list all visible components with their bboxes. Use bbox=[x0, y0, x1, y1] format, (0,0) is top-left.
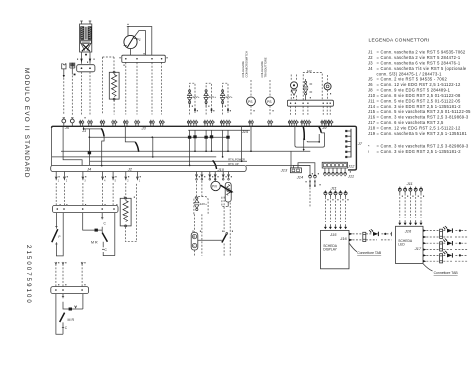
J9 wire frame bbox=[295, 126, 325, 147]
strip C connector bbox=[53, 205, 119, 212]
mains connector cup bbox=[62, 63, 66, 69]
svg-text:J15: J15 bbox=[241, 129, 249, 134]
bus B connector body bbox=[51, 165, 247, 171]
svg-text:LED: LED bbox=[398, 243, 405, 247]
igniter top leads bbox=[80, 21, 91, 24]
display board entry chevrons bbox=[324, 224, 327, 229]
wire dashed to strip C x=56.2 bbox=[55, 183, 57, 205]
pressure switch PS1 bbox=[250, 80, 252, 97]
wires dashed strip F to bus bbox=[290, 106, 292, 115]
svg-text:Connettore TAB: Connettore TAB bbox=[434, 271, 459, 275]
display LED chain bbox=[349, 233, 353, 242]
socket B C component bbox=[191, 232, 198, 250]
J9 switch blade 2 bbox=[319, 127, 321, 133]
svg-text:= Conn. 9 vie EDG RST 5 28448: = Conn. 9 vie EDG RST 5 284489-1 bbox=[377, 88, 451, 93]
led row 1 bbox=[423, 229, 426, 238]
pressure switch PS2 bbox=[269, 80, 271, 97]
svg-text:12V+: 12V+ bbox=[192, 95, 200, 99]
svg-text:= Conn. vaschetta 5 vie RST 2: = Conn. vaschetta 5 vie RST 2,5 1-135518… bbox=[377, 131, 468, 136]
svg-text:= Conn. 2 vie RST 5 94535 - 7: = Conn. 2 vie RST 5 94535 - 7062 bbox=[377, 77, 448, 82]
J9 switch blade 1 bbox=[302, 127, 305, 140]
connector pin pair at x=295.4 bbox=[293, 120, 298, 127]
wire dashed to strip D x=55.9 bbox=[55, 264, 57, 287]
P/V sensor circle bbox=[214, 174, 216, 182]
svg-text:J17: J17 bbox=[414, 246, 422, 251]
pin number specks bbox=[80, 122, 81, 123]
connector pin pair at x=161.6 bbox=[159, 120, 164, 127]
J9 drop to rail bbox=[303, 141, 305, 150]
svg-text:J11: J11 bbox=[347, 174, 354, 179]
svg-text:J15: J15 bbox=[329, 232, 337, 237]
J10 stub x=196.5 bbox=[196, 172, 198, 178]
svg-text:J13: J13 bbox=[280, 168, 288, 173]
MR1 lower bbox=[103, 213, 115, 256]
svg-text:J2: J2 bbox=[368, 55, 374, 60]
svg-text:J8: J8 bbox=[368, 88, 374, 93]
svg-text:J19: J19 bbox=[368, 131, 377, 136]
connettore TAB note (display) bbox=[349, 243, 357, 252]
wire dashed fork to J5 bbox=[71, 76, 73, 115]
switch blade mid bbox=[135, 142, 138, 151]
svg-text:J11: J11 bbox=[406, 181, 413, 186]
svg-text:conn. 5/3) 284475-1 / 284473-1: conn. 5/3) 284475-1 / 284473-1 bbox=[377, 71, 443, 76]
connector pin pair at x=189.6 bbox=[187, 120, 192, 127]
svg-text:= Conn. 12 vie EDG RST 2,5 1-: = Conn. 12 vie EDG RST 2,5 1-51122-12 bbox=[377, 82, 461, 87]
dashed drops to led board bbox=[399, 194, 401, 218]
svg-text:= Conn. 5 vie vaschetta RST 2: = Conn. 5 vie vaschetta RST 2,5 01-51122… bbox=[377, 109, 472, 114]
dashed drop to socket bbox=[194, 214, 202, 255]
connector J12 bbox=[322, 162, 347, 168]
J11 led pin row bbox=[398, 187, 401, 194]
svg-text:PS: PS bbox=[267, 100, 272, 104]
led row 3 bbox=[423, 254, 426, 262]
igniter bottom leads with arrows bbox=[82, 52, 91, 64]
J13 feed wires bbox=[293, 163, 315, 174]
scheda led box bbox=[396, 226, 424, 263]
resistor zigzag bbox=[112, 75, 117, 91]
pump terminal ticks bbox=[127, 24, 129, 26]
svg-text:= Conn. 3 vie EDG RST 2,5 1-1: = Conn. 3 vie EDG RST 2,5 1-1355181-2 bbox=[377, 104, 462, 109]
bus B stub x=102.6 bbox=[102, 172, 104, 181]
svg-text:J12: J12 bbox=[347, 163, 355, 168]
wire dashed resistor to bus bbox=[113, 100, 115, 114]
connector pin pair at x=206.1 bbox=[204, 120, 209, 127]
connector pin pair at x=330.2 bbox=[328, 120, 333, 127]
svg-text:J16: J16 bbox=[368, 115, 377, 120]
wire dashed cup to J5 bbox=[63, 78, 65, 115]
bus B stub x=113.1 bbox=[112, 172, 114, 181]
igniter core lines bbox=[85, 27, 87, 40]
led board entry chevrons bbox=[398, 220, 401, 225]
svg-text:= Conn. vaschetta 2 vie RST 5: = Conn. vaschetta 2 vie RST 5 284472-1 bbox=[377, 55, 461, 60]
wire dashed to strip C x=64.4 bbox=[63, 183, 65, 205]
long rail y151 bbox=[61, 150, 310, 152]
svg-text:= Conn. 5 vie EDG RST 2,5 01-: = Conn. 5 vie EDG RST 2,5 01-51122-05 bbox=[377, 98, 461, 103]
svg-text:12V+: 12V+ bbox=[200, 202, 208, 206]
igniter connector box J1 bbox=[77, 65, 95, 72]
J10 stub x=201.9 bbox=[201, 172, 203, 178]
svg-text:MODULO EVO II STANDARD: MODULO EVO II STANDARD bbox=[23, 68, 30, 179]
svg-text:= Conn. 3 vie EDG RST 2,5 1-13: = Conn. 3 vie EDG RST 2,5 1-1355181-2 bbox=[377, 149, 462, 154]
wires dashed strip to bus bbox=[126, 62, 162, 114]
MR1 relay branch bbox=[83, 213, 103, 233]
bus B stub x=82.9 bbox=[82, 172, 84, 181]
svg-text:M R: M R bbox=[91, 241, 98, 245]
MR1 left loop bbox=[56, 213, 63, 256]
drop wire x=211.5 bbox=[211, 130, 213, 151]
MR1 switch P blade bbox=[52, 229, 58, 242]
svg-text:DISPLAY: DISPLAY bbox=[323, 248, 337, 252]
pump motor P1 circle bbox=[124, 35, 137, 48]
MR2 wires bbox=[56, 294, 83, 335]
J15 sub-rail bbox=[188, 129, 250, 131]
bus B stub x=56.2 bbox=[55, 172, 57, 181]
svg-text:J14: J14 bbox=[296, 175, 304, 180]
svg-text:= Conn. 6 vie vaschetta RST 2,: = Conn. 6 vie vaschetta RST 2,5 bbox=[377, 120, 444, 125]
dashed bridge 12V bbox=[303, 73, 322, 101]
left rail wire bbox=[51, 128, 53, 166]
svg-text:TRASDUTTORE: TRASDUTTORE bbox=[264, 57, 268, 77]
svg-text:!: ! bbox=[368, 149, 369, 154]
12V valve gate low bbox=[197, 181, 202, 197]
fuse circle J5 a bbox=[62, 119, 66, 123]
connector pin pair at x=137.0 bbox=[135, 120, 140, 127]
igniter coil right bbox=[88, 27, 91, 40]
svg-text:= Conn. vaschetta 2 vie RST 5: = Conn. vaschetta 2 vie RST 5 94535-7062 bbox=[377, 50, 466, 55]
fuse circle J5 b bbox=[70, 119, 74, 123]
pump wiring frame bbox=[128, 27, 152, 56]
svg-text:J17: J17 bbox=[368, 120, 377, 125]
wire dashed to strip C x=82.9 bbox=[82, 183, 84, 205]
12V valve gate 1 bbox=[190, 83, 195, 114]
connector pin pair at x=125.8 bbox=[124, 120, 129, 127]
12V valve gate 2 bbox=[206, 83, 211, 114]
resistor box lower bbox=[120, 198, 131, 226]
connector pin pair at x=211.5 bbox=[209, 120, 214, 127]
cup stem bbox=[63, 69, 65, 77]
J11 display pin row bbox=[324, 190, 327, 197]
svg-text:RTN_POWER: RTN_POWER bbox=[228, 157, 245, 161]
svg-text:J2: J2 bbox=[127, 167, 133, 172]
drop wire x=195.0 bbox=[194, 130, 196, 151]
bus B stub x=125.8 bbox=[125, 172, 127, 181]
svg-text:12V+: 12V+ bbox=[225, 95, 233, 99]
gas valve symbol bbox=[303, 81, 307, 95]
connector pin pair at x=81.5 bbox=[79, 120, 84, 127]
strip D connector bbox=[51, 287, 89, 294]
connection rail down to J13 bbox=[290, 151, 292, 168]
J10 stub x=223.2 bbox=[222, 172, 224, 178]
J10 stub x=215.2 bbox=[214, 172, 216, 178]
connector pin pair at x=303.1 bbox=[301, 120, 306, 127]
J16 pin row bbox=[324, 168, 326, 171]
J10 stub x=209.8 bbox=[209, 172, 211, 178]
wires x241 x251 bbox=[242, 126, 251, 161]
wire x125 with blade bbox=[125, 126, 135, 142]
J1 stub wire bbox=[84, 126, 102, 129]
drop wire x=189.6 bbox=[189, 130, 191, 165]
wire dashed to strip D x=63.0 bbox=[62, 264, 64, 287]
wire x104 down bbox=[102, 136, 104, 165]
svg-text:12V+: 12V+ bbox=[209, 95, 217, 99]
connettore TAB note (led) bbox=[423, 264, 433, 271]
dashed loop under resistor bbox=[126, 183, 137, 242]
bus B stub x=137.4 bbox=[136, 172, 138, 181]
svg-text:J7: J7 bbox=[357, 141, 363, 146]
connector pin pair at x=290.6 bbox=[288, 120, 293, 127]
svg-text:J3: J3 bbox=[141, 126, 147, 131]
svg-text:21500759100: 21500759100 bbox=[25, 245, 32, 305]
long rail y137 bbox=[89, 136, 228, 138]
scheda display box bbox=[321, 230, 350, 268]
svg-text:J14: J14 bbox=[368, 104, 377, 109]
wire dashed to strip C x=102.6 bbox=[102, 183, 104, 205]
12V valve gate 3 bbox=[223, 83, 228, 114]
long rail y157 bbox=[52, 156, 217, 158]
dashed lines x102 x114 bbox=[103, 57, 115, 115]
svg-text:P1: P1 bbox=[137, 38, 141, 42]
wire dashed to strip D x=82.1 bbox=[81, 264, 83, 287]
connector strip J3 top bbox=[122, 55, 166, 62]
mains connector fork bbox=[70, 63, 75, 68]
connector strip F bbox=[287, 100, 333, 106]
svg-text:= Conn. 3 vie vaschetta RST 2,: = Conn. 3 vie vaschetta RST 2,5 3-819869… bbox=[377, 115, 469, 120]
igniter divider band bbox=[81, 40, 92, 43]
connector pin pair at x=251.0 bbox=[249, 120, 254, 127]
igniter transformer box bbox=[80, 24, 92, 52]
svg-text:J6: J6 bbox=[368, 82, 374, 87]
svg-text:J3: J3 bbox=[368, 60, 374, 65]
svg-text:M R: M R bbox=[68, 318, 75, 322]
svg-text:COLLEGARE: COLLEGARE bbox=[241, 61, 245, 78]
svg-text:J16: J16 bbox=[404, 229, 412, 234]
svg-text:J11: J11 bbox=[330, 186, 337, 191]
svg-text:Connettore TAB: Connettore TAB bbox=[357, 251, 382, 255]
svg-text:= Conn. 8 vie EDG RST 2,5 01-: = Conn. 8 vie EDG RST 2,5 01-51122-08 bbox=[377, 93, 461, 98]
connector J13 bbox=[290, 168, 301, 173]
J10 stub x=228.5 bbox=[228, 172, 230, 178]
svg-text:= Conn. vaschetta 7/4 vie RST: = Conn. vaschetta 7/4 vie RST 5 (opziona… bbox=[377, 66, 467, 71]
hang switch blade bbox=[222, 234, 227, 243]
sensor circle bbox=[324, 83, 331, 90]
connector pin pair at x=102.5 bbox=[100, 120, 105, 127]
J14 pins bbox=[309, 174, 312, 179]
connector pin pair at x=90.0 bbox=[88, 120, 93, 127]
igniter spark funnel bbox=[81, 43, 91, 50]
svg-text:J18: J18 bbox=[368, 126, 377, 131]
igniter coil left bbox=[81, 27, 84, 40]
connector pin pair at x=228.0 bbox=[226, 120, 231, 127]
svg-text:CON MICROSWITCH: CON MICROSWITCH bbox=[245, 51, 249, 77]
connector pin pair at x=222.6 bbox=[220, 120, 225, 127]
connector pin pair at x=323.2 bbox=[321, 120, 326, 127]
staircase wire J4 bbox=[63, 126, 82, 165]
wire socket to switch bbox=[198, 239, 222, 241]
bus A rail bbox=[52, 126, 357, 170]
svg-text:J15: J15 bbox=[368, 109, 377, 114]
resistor box top-left bbox=[109, 72, 119, 99]
MR1 switch blade bbox=[102, 233, 107, 242]
svg-text:J10: J10 bbox=[368, 93, 377, 98]
connector pin pair at x=195.0 bbox=[193, 120, 198, 127]
MR2 switch blade bbox=[60, 313, 65, 322]
connector pin pair at x=270.0 bbox=[268, 120, 273, 127]
pot arrow bbox=[221, 185, 233, 192]
svg-text:= Conn. 3 vie vaschetta RST 2,: = Conn. 3 vie vaschetta RST 2,5 3-829869… bbox=[377, 143, 469, 148]
switch blade near J10 bbox=[213, 160, 217, 169]
svg-text:COLLEGARE: COLLEGARE bbox=[260, 61, 264, 78]
connector J7 bbox=[350, 129, 352, 158]
svg-text:J1: J1 bbox=[368, 50, 374, 55]
drop wire x=222.6 bbox=[222, 130, 224, 157]
connector pin pair at x=307.9 bbox=[306, 120, 311, 127]
svg-text:P/V: P/V bbox=[212, 185, 218, 189]
dashed drops to display board bbox=[324, 197, 326, 222]
svg-text:J10: J10 bbox=[217, 167, 225, 172]
bus B stub x=64.4 bbox=[63, 172, 65, 181]
led row 2 bbox=[423, 242, 426, 251]
fan motor circle bbox=[291, 75, 296, 82]
svg-text:J16: J16 bbox=[339, 236, 347, 241]
svg-text:PS: PS bbox=[248, 100, 253, 104]
switch blade J1 bbox=[101, 128, 104, 136]
connector pin pair at x=114.1 bbox=[112, 120, 117, 127]
wire dashed igniter to bus bbox=[82, 72, 91, 115]
svg-text:LEGENDA CONNETTORI: LEGENDA CONNETTORI bbox=[369, 38, 430, 44]
wire x152 bbox=[152, 137, 154, 157]
svg-text:= Conn. vaschetta 6 vie RST 5: = Conn. vaschetta 6 vie RST 5 284476-1 bbox=[377, 60, 461, 65]
drop wire x=206.1 bbox=[205, 130, 207, 151]
fork stem bbox=[71, 68, 73, 75]
svg-text:J5: J5 bbox=[64, 125, 70, 130]
connector pin pair at x=327.2 bbox=[325, 120, 330, 127]
svg-text:J11: J11 bbox=[368, 98, 376, 103]
svg-text:J5: J5 bbox=[368, 77, 374, 82]
svg-text:12V: 12V bbox=[307, 69, 312, 73]
svg-text:J4: J4 bbox=[86, 167, 92, 172]
connector pin pair at x=152.0 bbox=[150, 120, 155, 127]
svg-text:= Conn. 12 vie EDG RST 2,5 1: = Conn. 12 vie EDG RST 2,5 1-51122-12 bbox=[377, 126, 461, 131]
drop wire x=228.0 bbox=[227, 130, 229, 151]
svg-text:J4: J4 bbox=[368, 66, 374, 71]
pot bottom wire bbox=[227, 202, 229, 207]
potentiometer bbox=[225, 182, 231, 202]
wire dashed to strip C x=113.1 bbox=[112, 183, 114, 205]
wire dashed bus B to resistor bbox=[125, 183, 127, 198]
relay branch wire x89 bbox=[88, 129, 90, 166]
